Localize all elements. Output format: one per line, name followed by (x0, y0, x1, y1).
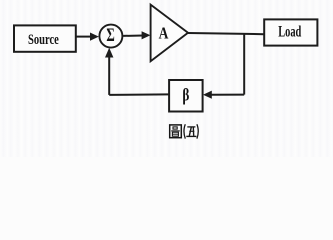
source block (14, 25, 76, 51)
arrowhead feedback into summer bottom (105, 48, 113, 58)
caption glyph TU inner top mouth (173, 127, 177, 129)
load block (264, 19, 317, 45)
caption glyph WU top bar (187, 126, 195, 128)
caption glyph TU inner bottom box (172, 132, 178, 136)
caption glyph TU middle bar (171, 130, 180, 132)
caption glyph WU bottom bar (186, 135, 196, 137)
op-amp A triangle (151, 5, 188, 62)
svg-text:Source: Source (28, 32, 59, 48)
arrowhead into amplifier (142, 31, 151, 39)
svg-text:Σ: Σ (106, 25, 114, 46)
caption glyph WU left stem (189, 127, 191, 136)
arrowhead into summer (90, 33, 99, 41)
arrowhead into beta block (203, 91, 212, 99)
caption: Chinese figure label "tu (wu)" drawn as strokes (170, 124, 199, 138)
caption close paren (197, 124, 198, 138)
caption open paren (184, 124, 185, 138)
wire beta to vertical riser (109, 93, 169, 96)
wire summer to amplifier (123, 35, 143, 37)
svg-text:A: A (159, 23, 169, 42)
wire source to summer (76, 36, 92, 38)
svg-text:Load: Load (278, 24, 301, 41)
svg-text:β: β (182, 85, 189, 105)
wire tap to beta block (210, 94, 245, 96)
caption glyph WU middle bar (189, 130, 194, 132)
summing junction (99, 25, 122, 48)
wire amplifier output to load (188, 33, 264, 34)
wire feedback tap vertical (243, 34, 245, 95)
wire riser to summer (108, 56, 110, 95)
caption glyph TU inner bottom tick (173, 133, 179, 135)
caption glyph WU right stem (192, 127, 194, 136)
feedback block beta (169, 80, 203, 112)
caption glyph TU outer box (170, 125, 182, 138)
